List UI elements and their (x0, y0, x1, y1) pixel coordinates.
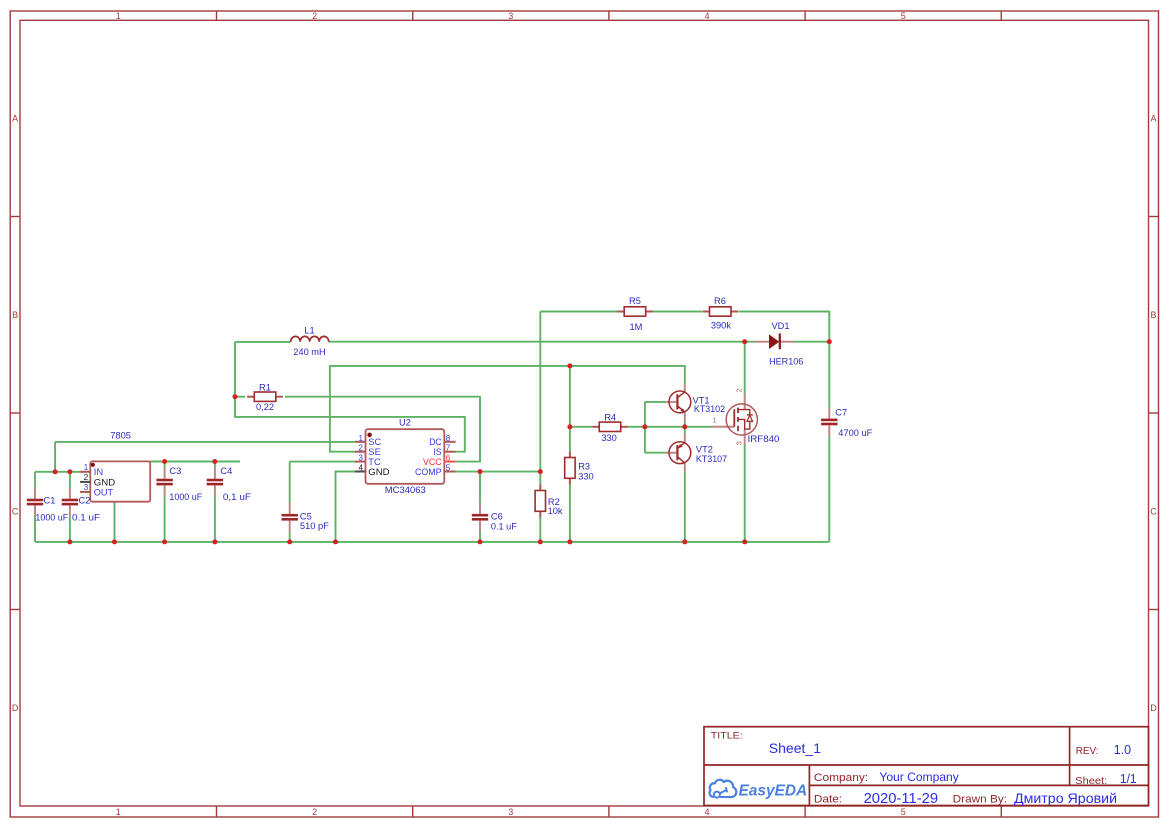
svg-text:HER106: HER106 (769, 356, 803, 366)
svg-text:A: A (12, 114, 18, 124)
wire VT2 base (645, 452, 666, 454)
title block (704, 727, 1149, 807)
svg-text:7805: 7805 (110, 431, 131, 441)
svg-text:4700 uF: 4700 uF (838, 428, 872, 438)
wire VT1 base (645, 401, 666, 403)
svg-text:IRF840: IRF840 (748, 434, 780, 444)
wire U2 GND down (336, 472, 355, 542)
junction dots (53, 339, 832, 544)
wire 7805 OUT rail (146, 461, 240, 463)
svg-text:5: 5 (446, 464, 451, 473)
svg-text:U2: U2 (399, 418, 411, 428)
svg-text:A: A (1150, 114, 1156, 124)
svg-text:GND: GND (368, 466, 390, 477)
svg-text:2: 2 (84, 473, 89, 482)
svg-text:Drawn By:: Drawn By: (953, 793, 1007, 805)
svg-text:C7: C7 (835, 408, 847, 418)
svg-text:R4: R4 (604, 412, 616, 422)
svg-text:0.1 uF: 0.1 uF (72, 512, 100, 522)
svg-text:D: D (1150, 703, 1157, 713)
op-amp converter U2 MC34063 (355, 418, 456, 495)
transistor VT1 KT3102 (666, 384, 726, 421)
wire R1 left (235, 396, 245, 398)
resistor R3 (565, 451, 594, 484)
resistor R2 (535, 484, 563, 517)
svg-text:3: 3 (359, 454, 364, 463)
capacitor C1 (27, 472, 69, 542)
svg-text:4: 4 (359, 464, 364, 473)
svg-text:2: 2 (312, 11, 317, 21)
wire MOSFET drain (744, 342, 746, 394)
svg-text:C3: C3 (169, 466, 181, 476)
wire R1 right to VCC (285, 397, 480, 462)
wire VD1 cathode to C7 (794, 341, 829, 343)
svg-text:L1: L1 (304, 326, 314, 336)
wire 7805 GND down (114, 502, 116, 542)
wire R4 right to gate (628, 426, 713, 428)
svg-text:1.0: 1.0 (1114, 743, 1131, 757)
resistor R6 (702, 296, 738, 330)
svg-text:Дмитро Яровий: Дмитро Яровий (1014, 790, 1117, 806)
EasyEDA logo (710, 780, 808, 800)
svg-text:2: 2 (735, 388, 744, 392)
capacitor C3 (156, 462, 202, 542)
svg-text:0,22: 0,22 (256, 402, 274, 412)
capacitor C2 (62, 472, 101, 542)
svg-text:COMP: COMP (415, 466, 442, 477)
svg-text:1000 uF: 1000 uF (169, 492, 202, 502)
wire R2 top (539, 472, 541, 485)
wire feedback vertical (539, 312, 541, 472)
svg-text:4: 4 (704, 807, 709, 817)
svg-text:0,1 uF: 0,1 uF (223, 492, 251, 502)
transistor VT2 KT3107 (666, 434, 728, 473)
svg-text:EasyEDA: EasyEDA (739, 783, 808, 800)
svg-text:10k: 10k (548, 506, 563, 516)
svg-text:1: 1 (116, 11, 121, 21)
svg-text:6: 6 (446, 454, 451, 463)
svg-text:C6: C6 (491, 512, 503, 522)
wire U2 TC to C5 (290, 461, 355, 463)
wire input node (35, 471, 80, 473)
svg-text:R3: R3 (578, 461, 590, 471)
svg-text:1: 1 (359, 434, 364, 443)
wire to R5 (540, 311, 617, 313)
svg-text:1000 uF: 1000 uF (35, 512, 68, 522)
wire VT2 collector to rail (684, 472, 686, 542)
wire L1 input (235, 341, 291, 343)
capacitor C6 (472, 472, 517, 542)
svg-text:5: 5 (901, 11, 906, 21)
wire divider vertical R3 (569, 366, 571, 451)
capacitor C7 (821, 342, 873, 542)
svg-text:0.1 uF: 0.1 uF (491, 521, 517, 531)
wire R2 bottom (539, 517, 541, 542)
svg-text:REV:: REV: (1076, 745, 1099, 757)
wire net 7805 to U2 pin 1 (55, 441, 355, 443)
svg-text:KT3107: KT3107 (696, 454, 727, 464)
svg-text:B: B (12, 310, 18, 320)
wire R3 to rail (569, 485, 571, 542)
svg-text:3: 3 (508, 807, 513, 817)
wire U2 COMP (456, 471, 541, 473)
svg-text:C: C (12, 506, 19, 516)
MOSFET Q1 IRF840 (712, 388, 779, 445)
svg-text:B: B (1150, 310, 1156, 320)
svg-text:C4: C4 (220, 466, 232, 476)
svg-text:8: 8 (446, 434, 451, 443)
voltage regulator 7805 (80, 461, 150, 501)
svg-text:4: 4 (704, 11, 709, 21)
svg-text:Company:: Company: (814, 772, 868, 784)
resistor R4 (592, 412, 628, 443)
svg-text:7: 7 (446, 444, 451, 453)
wire R6 to C7 corner (739, 312, 830, 342)
svg-text:240 mH: 240 mH (293, 347, 325, 357)
svg-text:C5: C5 (300, 512, 312, 522)
resistor R5 (617, 296, 653, 332)
svg-text:C2: C2 (79, 496, 91, 506)
svg-text:TITLE:: TITLE: (711, 730, 743, 741)
wire 7805 net vertical (54, 442, 56, 472)
svg-text:3: 3 (508, 11, 513, 21)
wire base vertical (644, 402, 646, 453)
svg-text:MC34063: MC34063 (385, 485, 426, 495)
svg-text:2: 2 (312, 807, 317, 817)
svg-text:KT3102: KT3102 (694, 404, 725, 414)
svg-text:2: 2 (359, 444, 364, 453)
inductor L1 (291, 326, 329, 357)
svg-text:1: 1 (84, 463, 89, 472)
wire VT2 emitter node (684, 427, 686, 434)
svg-text:1: 1 (713, 416, 717, 425)
svg-text:3: 3 (84, 483, 89, 492)
svg-text:Sheet:: Sheet: (1075, 775, 1107, 787)
wire MOSFET source to rail (744, 444, 746, 542)
resistor R1 (247, 383, 283, 413)
wire R5 to R6 (653, 311, 702, 313)
wire U2 IS loop to R1 left (235, 342, 465, 452)
wire ground rail (35, 541, 829, 543)
wire U2 SE to collector bus (330, 366, 685, 452)
svg-text:D: D (12, 703, 19, 713)
svg-text:R6: R6 (714, 296, 726, 306)
svg-text:Your Company: Your Company (879, 770, 958, 784)
diode VD1 (755, 321, 804, 366)
svg-text:Date:: Date: (814, 793, 842, 805)
svg-text:330: 330 (578, 472, 594, 482)
svg-text:OUT: OUT (94, 486, 114, 497)
wire R4 left (570, 426, 592, 428)
capacitor C5 (282, 462, 330, 542)
svg-text:C1: C1 (44, 496, 56, 506)
svg-text:510 pF: 510 pF (300, 521, 329, 531)
capacitor C4 (207, 462, 252, 542)
svg-text:390k: 390k (711, 320, 732, 330)
svg-text:Sheet_1: Sheet_1 (769, 740, 821, 756)
wire VT1 emitter node (684, 422, 686, 427)
svg-text:5: 5 (901, 807, 906, 817)
svg-text:R1: R1 (259, 383, 271, 393)
svg-text:330: 330 (601, 433, 617, 443)
svg-text:C: C (1150, 506, 1157, 516)
svg-text:VD1: VD1 (771, 321, 789, 331)
svg-text:1: 1 (116, 807, 121, 817)
svg-text:1M: 1M (629, 322, 642, 332)
svg-text:2020-11-29: 2020-11-29 (864, 791, 939, 807)
svg-text:R5: R5 (629, 296, 641, 306)
svg-text:1/1: 1/1 (1120, 772, 1137, 786)
svg-text:3: 3 (735, 441, 744, 445)
wire L1 output to VD1 (329, 341, 755, 343)
